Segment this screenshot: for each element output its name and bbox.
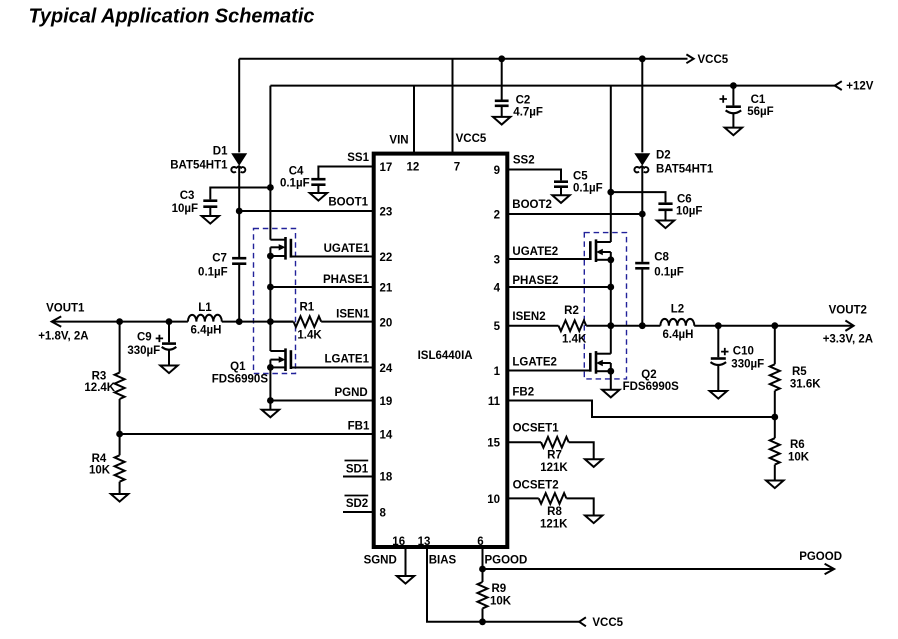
wire PGOOD pin 6 stub [483,549,528,582]
wire phase1 vertical [269,256,271,351]
capacitor C1 [720,86,774,128]
wire FB2 to pin 11 [508,387,775,418]
resistor R2 [508,305,661,346]
capacitor C4 (SS1) [280,152,373,193]
capacitor C5 (SS2) [508,155,603,196]
svg-text:PHASE1: PHASE1 [323,274,370,286]
svg-text:PGOOD: PGOOD [485,555,528,567]
node BOOT1 junction [236,208,243,215]
svg-text:BAT54HT1: BAT54HT1 [170,160,228,172]
svg-text:OCSET1: OCSET1 [513,423,560,435]
capacitor C7 (bootstrap 1) [198,253,246,322]
svg-text:23: 23 [380,207,393,219]
wire PHASE2 to pin 4 [508,275,611,287]
svg-text:14: 14 [380,430,393,442]
wire VOUT1 row [38,303,293,343]
svg-text:17: 17 [380,162,393,174]
svg-text:10K: 10K [89,465,111,477]
svg-text:ISEN2: ISEN2 [512,311,545,323]
svg-text:VCC5: VCC5 [698,54,729,66]
inductor L2 [660,304,694,342]
svg-text:R7: R7 [547,450,562,462]
wire LGATE2 to pin 1 [508,357,591,371]
svg-text:L1: L1 [198,302,212,314]
node FB2 junction [771,414,778,421]
svg-text:19: 19 [380,396,393,408]
svg-text:BIAS: BIAS [429,555,457,567]
wire SD2 stub [343,496,373,513]
svg-text:R9: R9 [492,583,507,595]
diode D2 BAT54HT1 [634,59,714,262]
svg-text:20: 20 [380,318,393,330]
ground (R8) [585,516,602,524]
svg-text:D2: D2 [656,150,671,162]
ground (R4) [111,494,128,502]
svg-text:6.4µH: 6.4µH [191,325,222,337]
svg-text:ISL6440IA: ISL6440IA [418,350,473,362]
svg-text:0.1µF: 0.1µF [573,183,603,195]
resistor R4 [89,434,125,494]
svg-text:4: 4 [494,283,501,295]
svg-text:330µF: 330µF [127,345,160,357]
ground (C10) [710,391,727,399]
node BOOT2 junction [639,211,646,218]
node PHASE2 junction [607,284,614,291]
node C1 junction [730,82,737,89]
node PHASE1 junction [267,284,274,291]
svg-text:Typical Application Schematic: Typical Application Schematic [29,6,315,28]
svg-text:C10: C10 [733,346,754,358]
node C6 junction [607,189,614,196]
svg-text:VIN: VIN [389,135,408,147]
svg-text:FB1: FB1 [348,421,370,433]
transistor Q2 lower MOSFET [590,351,679,393]
svg-text:R6: R6 [790,439,805,451]
svg-text:10K: 10K [788,452,810,464]
svg-text:2: 2 [494,210,500,222]
svg-text:SGND: SGND [364,555,397,567]
node C2 junction [498,55,505,62]
svg-text:+1.8V, 2A: +1.8V, 2A [38,331,88,343]
ground (C2) [493,117,510,125]
wire: VCC5 pin 7 stub to VCC5 rail [452,59,454,152]
ground (C1) [725,128,742,136]
svg-text:C3: C3 [180,190,195,202]
capacitor C6 [611,192,703,220]
svg-text:22: 22 [380,252,393,264]
svg-text:8: 8 [380,508,387,520]
capacitor C2 [495,59,543,119]
svg-text:3: 3 [494,255,500,267]
svg-text:10K: 10K [490,596,512,608]
svg-text:330µF: 330µF [731,359,764,371]
svg-text:C9: C9 [137,332,152,344]
IC U1 ISL6440IA [374,154,508,547]
transistor Q2 upper MOSFET [590,239,611,262]
svg-text:PGOOD: PGOOD [799,551,842,563]
node PGND junction [267,397,274,404]
svg-text:C4: C4 [289,166,304,178]
svg-text:R4: R4 [92,453,107,465]
svg-text:FDS6990S: FDS6990S [623,381,680,393]
transistor Q1 lower MOSFET [212,348,291,385]
svg-text:24: 24 [380,363,393,375]
wire BIAS pin 13 [427,549,483,622]
node phase2/ISEN2 junction [607,322,614,329]
wire SD1 stub [343,461,373,477]
ground (C6) [657,221,674,229]
node R3 junction [116,318,123,325]
node FB1 junction [116,431,123,438]
ground (R7) [585,459,602,467]
svg-text:12.4K: 12.4K [84,382,115,394]
resistor R1 [270,302,373,342]
wire FB1 to pin 14 [120,421,373,435]
wire Q2 source to ground [610,371,612,390]
ground (Q1 source) [262,410,279,418]
node Q1 lower source [267,364,274,371]
svg-text:R5: R5 [792,366,807,378]
node C10 junction [715,322,722,329]
VCC5 rail wire (top) [239,54,729,66]
svg-text:9: 9 [494,165,500,177]
svg-text:16: 16 [392,536,405,548]
node Q2 lower source [607,368,614,375]
node Q1 upper source (phase) [267,253,274,260]
inductor L1 [188,302,222,337]
svg-text:11: 11 [488,396,501,408]
svg-text:SD2: SD2 [346,498,368,510]
svg-text:PGND: PGND [334,387,367,399]
wire +12V down (left VIN line) [269,86,271,240]
svg-text:56µF: 56µF [747,106,773,118]
ground (SGND) [397,576,414,584]
svg-text:12: 12 [407,162,420,174]
svg-text:C6: C6 [677,194,692,206]
svg-text:10: 10 [487,494,500,506]
node boot line / ISEN junction [236,318,243,325]
ground (C9) [160,366,177,374]
ground (Q2 source) [602,390,619,398]
node D2 junction on VCC5 rail [639,55,646,62]
wire PGOOD output [483,551,843,574]
resistor R9 [478,582,512,622]
svg-text:121K: 121K [540,519,568,531]
svg-text:0.1µF: 0.1µF [198,267,228,279]
node R5 junction [771,322,778,329]
svg-text:1: 1 [494,366,501,378]
svg-text:LGATE1: LGATE1 [324,354,369,366]
node PGOOD junction [479,566,486,573]
capacitor C9 [127,322,176,366]
wire PHASE1 to pin 21 [270,274,373,287]
wire UGATE1 to pin 22 [291,243,373,257]
wire BOOT1 to pin 23 [239,197,373,212]
svg-text:1.4K: 1.4K [297,330,322,342]
node C9 junction [166,318,173,325]
svg-text:5: 5 [494,321,501,333]
wire +12V down (right VIN line) [610,86,612,242]
svg-text:0.1µF: 0.1µF [280,178,310,190]
wire UGATE2 to pin 3 [508,246,591,259]
svg-text:31.6K: 31.6K [790,379,821,391]
wire: VIN pin 12 stub to +12V rail [413,86,415,152]
svg-text:VCC5: VCC5 [456,133,487,145]
node C3 junction [267,184,274,191]
svg-text:13: 13 [418,536,431,548]
svg-text:FDS6990S: FDS6990S [212,374,269,386]
svg-text:D1: D1 [213,146,228,158]
svg-text:C1: C1 [751,94,766,106]
svg-text:6: 6 [477,536,483,548]
wire VCC5 (bottom) [483,617,624,629]
svg-text:ISEN1: ISEN1 [336,309,370,321]
svg-text:FB2: FB2 [512,387,534,399]
svg-text:C7: C7 [212,253,227,265]
svg-text:C5: C5 [573,171,588,183]
svg-text:6.4µH: 6.4µH [663,329,694,341]
pin numbers bottom row [392,536,483,548]
svg-text:C8: C8 [654,252,669,264]
svg-text:LGATE2: LGATE2 [512,357,557,369]
resistor R3 [84,322,124,434]
svg-text:+3.3V, 2A: +3.3V, 2A [823,334,873,346]
svg-text:PHASE2: PHASE2 [512,275,558,287]
capacitor C8 (bootstrap 2) [635,252,684,326]
resistor R5 [770,326,821,417]
svg-text:C2: C2 [516,95,531,107]
svg-text:BOOT1: BOOT1 [328,197,368,209]
svg-text:+12V: +12V [846,81,874,93]
node phase1/ISEN junction [267,318,274,325]
svg-text:4.7µF: 4.7µF [513,107,543,119]
node C8 line / ISEN2 junction [639,322,646,329]
ground (C5) [552,195,569,203]
wire LGATE1 to pin 24 [291,354,373,368]
svg-text:SD1: SD1 [346,464,369,476]
wire BOOT2 to pin 2 [508,199,643,214]
svg-text:L2: L2 [671,304,684,316]
svg-text:10µF: 10µF [676,206,702,218]
svg-text:18: 18 [380,472,393,484]
wire PGND to pin 19 [270,387,373,401]
transistor Q2 dashed outline [584,233,626,379]
pin numbers right column [487,165,500,506]
wire SGND pin 16 stub [364,549,406,576]
svg-text:21: 21 [380,283,393,295]
svg-text:SS2: SS2 [513,155,535,167]
capacitor C10 [711,326,765,391]
svg-text:15: 15 [487,438,500,450]
node BIAS/VCC5 junction [479,618,486,625]
svg-text:121K: 121K [540,462,568,474]
+12V rail wire [270,81,873,93]
diode D1 BAT54HT1 [170,59,247,257]
svg-text:OCSET2: OCSET2 [513,480,559,492]
svg-text:7: 7 [454,162,460,174]
transistor Q1 upper MOSFET [270,237,291,260]
svg-text:BAT54HT1: BAT54HT1 [656,164,714,176]
resistor R6 [770,417,810,481]
svg-text:BOOT2: BOOT2 [512,199,552,211]
svg-text:VOUT2: VOUT2 [829,305,867,317]
svg-text:VOUT1: VOUT1 [46,303,85,315]
svg-text:VCC5: VCC5 [592,617,623,629]
svg-text:UGATE2: UGATE2 [512,246,558,258]
svg-text:R1: R1 [299,302,314,314]
resistor R7 (OCSET1) [508,423,594,475]
wire phase2 vertical [610,260,612,354]
transistor Q1 dashed outline [254,229,296,374]
svg-text:0.1µF: 0.1µF [654,267,684,279]
wire Q1 source to ground [269,367,271,409]
pin numbers left column [380,162,393,520]
ground (R6) [766,481,783,489]
svg-text:Q1: Q1 [230,361,246,373]
svg-text:Q2: Q2 [641,369,656,381]
resistor R8 (OCSET2) [508,480,594,531]
svg-text:1.4K: 1.4K [562,334,587,346]
ground (C3) [202,216,219,224]
svg-text:SS1: SS1 [347,152,369,164]
ground (C4) [310,193,327,201]
svg-text:UGATE1: UGATE1 [324,243,370,255]
svg-text:R2: R2 [564,305,579,317]
node Q2 upper source (phase2) [607,256,614,263]
wire VOUT2 row [694,305,873,346]
svg-text:R8: R8 [547,506,562,518]
svg-text:R3: R3 [92,371,107,383]
capacitor C3 (input cap left) [172,188,271,217]
svg-text:10µF: 10µF [172,203,198,215]
